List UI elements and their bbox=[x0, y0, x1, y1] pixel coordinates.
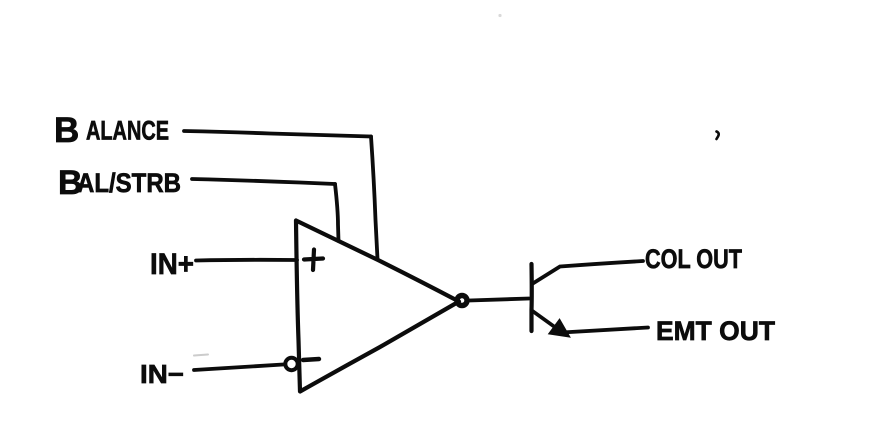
wire output to transistor base bbox=[469, 299, 529, 301]
faint pencil smudge near IN- wire bbox=[194, 355, 208, 356]
ink speck bbox=[717, 132, 719, 140]
svg-text:COL OUT: COL OUT bbox=[645, 244, 742, 274]
op-amp U1 triangle bbox=[296, 221, 459, 392]
svg-text:IN+: IN+ bbox=[150, 248, 194, 281]
op-amp output bubble bbox=[457, 296, 467, 306]
transistor Q1 emitter lead bbox=[533, 311, 649, 333]
svg-text:EMT OUT: EMT OUT bbox=[656, 316, 775, 346]
op-amp + pin mark bbox=[304, 250, 323, 271]
transistor Q1 collector lead bbox=[532, 261, 643, 284]
wire IN- input bbox=[194, 365, 283, 371]
wire BALANCE horizontal bbox=[184, 131, 371, 137]
transistor Q1 emitter arrowhead bbox=[550, 320, 570, 337]
svg-text:B: B bbox=[54, 111, 79, 150]
faint dot top center bbox=[498, 14, 501, 17]
inverting input bubble bbox=[285, 358, 297, 370]
wire BAL/STRB horizontal bbox=[192, 179, 335, 184]
svg-text:AL/STRB: AL/STRB bbox=[77, 168, 181, 198]
svg-text:IN−: IN− bbox=[140, 359, 184, 389]
transistor Q1 base bar bbox=[529, 264, 533, 331]
wire BALANCE vertical to op-amp top edge bbox=[371, 137, 378, 260]
wire IN+ input bbox=[196, 258, 297, 262]
op-amp - pin mark bbox=[303, 359, 319, 360]
wire BAL/STRB vertical to op-amp top edge bbox=[335, 184, 339, 241]
svg-text:ALANCE: ALANCE bbox=[86, 116, 169, 146]
